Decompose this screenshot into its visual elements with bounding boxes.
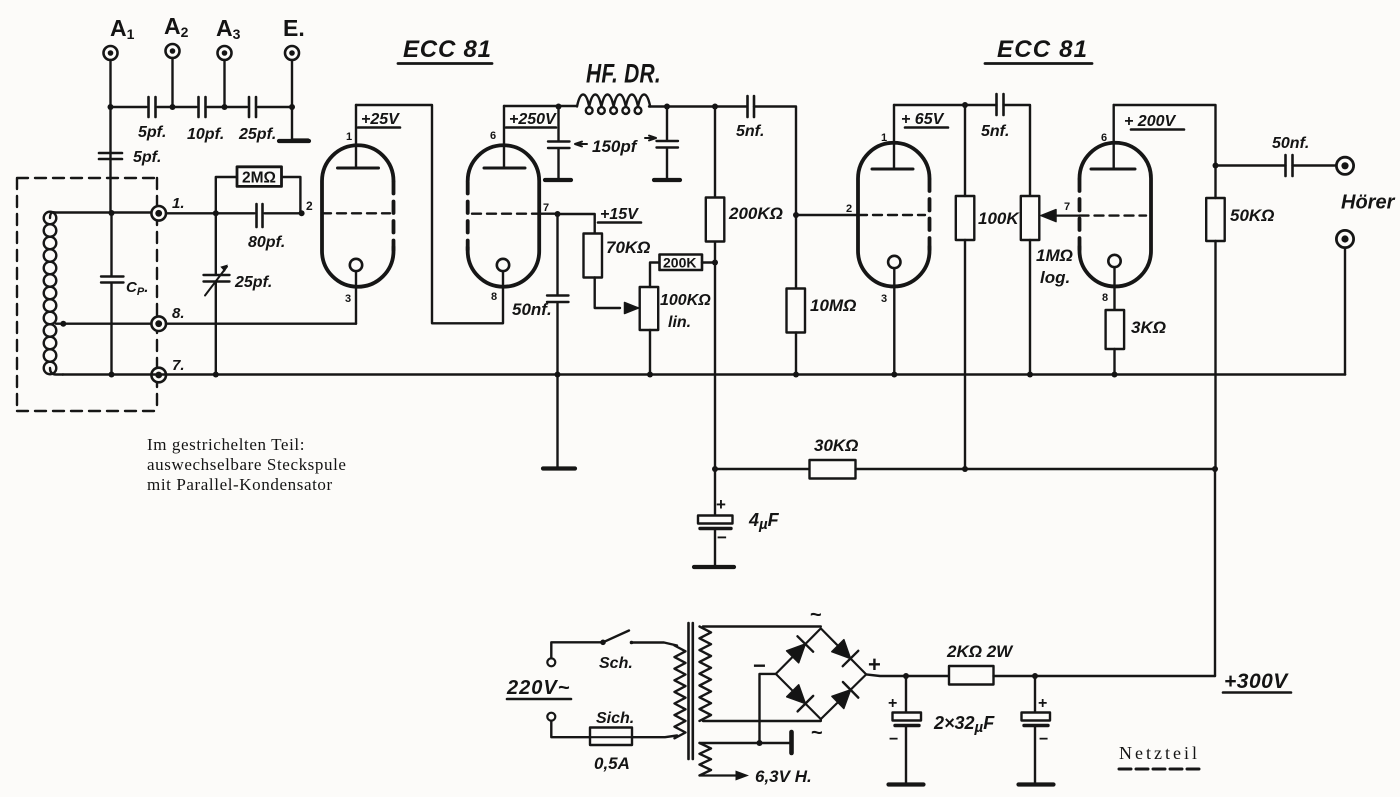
junction A3 line bbox=[222, 104, 228, 110]
tube V4 envelope bbox=[1080, 143, 1152, 287]
svg-text:25pf.: 25pf. bbox=[238, 126, 276, 143]
junction 200K node bbox=[712, 260, 718, 266]
wire A2 down bbox=[171, 58, 173, 107]
SECTION: input coil box bbox=[17, 167, 356, 494]
ground E bbox=[279, 138, 309, 143]
wire bridge plus to filter bbox=[866, 674, 949, 676]
wire coupling chain bbox=[111, 106, 293, 108]
coil L1 bbox=[44, 212, 64, 375]
resistor 2MOhm box bbox=[237, 167, 282, 187]
svg-text:mit Parallel-Kondensator: mit Parallel-Kondensator bbox=[147, 475, 333, 494]
wire grid V3 bbox=[796, 214, 858, 216]
junction 10M bottom bbox=[793, 372, 799, 378]
transformer core bbox=[689, 623, 693, 759]
SECTION: choke and mid parts bbox=[504, 59, 858, 469]
svg-text:Sch.: Sch. bbox=[599, 655, 633, 672]
grid V3 dashed bbox=[858, 214, 925, 216]
pin 6 lead V4 bbox=[1112, 105, 1114, 169]
capacitor 5pf series bbox=[149, 97, 156, 117]
svg-text:3KΩ: 3KΩ bbox=[1131, 318, 1166, 337]
svg-text:3: 3 bbox=[345, 293, 351, 305]
svg-text:7: 7 bbox=[543, 202, 549, 214]
junction E line bbox=[289, 104, 295, 110]
svg-text:150pf: 150pf bbox=[592, 137, 639, 156]
svg-text:+: + bbox=[1038, 695, 1047, 712]
svg-text:7.: 7. bbox=[172, 357, 185, 374]
ground 4uF bbox=[694, 565, 734, 569]
resistor 100K leads bbox=[964, 105, 966, 469]
SECTION: power supply bbox=[506, 604, 1291, 786]
wire node1 to grid wire bbox=[166, 212, 302, 214]
junction 100K bottom supply bbox=[962, 466, 968, 472]
anode V3 bbox=[872, 168, 913, 171]
resistor 50K box bbox=[1206, 198, 1225, 241]
svg-text:6: 6 bbox=[490, 130, 496, 142]
node 1 terminal bbox=[151, 206, 166, 221]
svg-text:HF. DR.: HF. DR. bbox=[586, 59, 661, 89]
wire grid junction to 70K bbox=[558, 214, 595, 234]
svg-text:+ 65V: + 65V bbox=[901, 111, 945, 128]
capacitor 10pf series bbox=[199, 97, 206, 117]
svg-text:1.: 1. bbox=[172, 195, 185, 212]
resistor 2MOhm loop bbox=[216, 177, 301, 213]
junction pot 1M bottom bbox=[1027, 372, 1033, 378]
svg-text:+300V: +300V bbox=[1224, 670, 1289, 693]
junction 50nf ground bbox=[555, 372, 561, 378]
pot 100K bottom lead bbox=[649, 330, 651, 375]
pin 6 lead V2 bbox=[503, 106, 505, 168]
wire mains top to switch bbox=[551, 642, 603, 658]
supply line 30K bbox=[715, 468, 1215, 470]
resistor 50K leads bbox=[1214, 166, 1216, 470]
wiper arrow 1M pot bbox=[1055, 215, 1080, 217]
heater lead arrow bbox=[700, 774, 737, 776]
ground C2 bbox=[1019, 782, 1054, 786]
svg-text:+25V: +25V bbox=[361, 111, 400, 128]
tube V3 envelope bbox=[858, 143, 930, 287]
wire secondary top to bridge bbox=[703, 625, 821, 627]
svg-text:ECC 81: ECC 81 bbox=[997, 36, 1088, 63]
capacitor 4uF electrolytic bbox=[714, 469, 716, 516]
node 2 junction bbox=[299, 210, 305, 216]
grid V1 dashed bbox=[322, 212, 390, 214]
svg-text:ECC 81: ECC 81 bbox=[403, 36, 492, 63]
transformer heater winding bbox=[700, 743, 712, 775]
tube V3 envelope dashed side bbox=[928, 180, 932, 250]
junction A2 line bbox=[170, 104, 176, 110]
terminal Hoerer top bbox=[1336, 157, 1353, 174]
svg-text:50KΩ: 50KΩ bbox=[1230, 206, 1274, 225]
svg-text:auswechselbare Steckspule: auswechselbare Steckspule bbox=[147, 455, 347, 474]
pin 1 lead V1 bbox=[355, 105, 357, 168]
junction 3K bottom bbox=[1112, 372, 1118, 378]
trimmer arrow 25pf bbox=[205, 267, 227, 296]
svg-text:−: − bbox=[1039, 731, 1048, 748]
resistor 100K box bbox=[956, 196, 975, 240]
svg-text:~: ~ bbox=[811, 722, 823, 744]
svg-text:50nf.: 50nf. bbox=[512, 300, 552, 319]
wire 5nf to grid V3 bbox=[754, 107, 796, 289]
svg-text:100K: 100K bbox=[978, 209, 1020, 228]
svg-text:5pf.: 5pf. bbox=[138, 124, 166, 141]
grid V2 junction dot bbox=[555, 211, 561, 217]
fuse Sich box bbox=[590, 728, 632, 746]
feed line 200KOhm vertical bbox=[714, 107, 716, 470]
grid V4 dashed bbox=[1080, 214, 1147, 216]
wire choke to right bbox=[649, 105, 747, 107]
svg-text:2KΩ 2W: 2KΩ 2W bbox=[946, 642, 1014, 661]
svg-text:10pf.: 10pf. bbox=[187, 126, 224, 143]
wire E down bbox=[291, 60, 293, 141]
tube V1 envelope dashed side bbox=[392, 182, 396, 250]
capacitor Cp bbox=[101, 213, 124, 375]
junction 25pf branch bbox=[213, 210, 219, 216]
transformer secondary winding bbox=[700, 627, 712, 721]
junction Cp bottom bbox=[109, 372, 115, 378]
grid V2 dashed bbox=[472, 212, 540, 214]
resistor 2K box bbox=[949, 666, 994, 685]
svg-text:220V~: 220V~ bbox=[506, 677, 570, 699]
svg-text:−: − bbox=[717, 528, 727, 547]
svg-text:~: ~ bbox=[810, 604, 822, 626]
capacitor 50nf output bbox=[1286, 155, 1293, 176]
resistor 3K lead bbox=[1113, 349, 1115, 375]
capacitor 150pf right bbox=[657, 107, 679, 180]
junction cap2 bbox=[1032, 673, 1038, 679]
svg-text:Sich.: Sich. bbox=[596, 710, 634, 727]
svg-text:CP.: CP. bbox=[126, 279, 148, 298]
resistor 70K box bbox=[584, 234, 603, 278]
ground bar psu bbox=[789, 732, 794, 753]
wire 5nf to pot 1M bbox=[1004, 105, 1031, 196]
junction 200k line top bbox=[712, 104, 718, 110]
SECTION: tubes V3 V4 bbox=[846, 36, 1216, 469]
svg-text:2×32µF: 2×32µF bbox=[933, 713, 995, 736]
cathode V4 circle bbox=[1108, 255, 1120, 267]
junction anode V4 output bbox=[1213, 163, 1219, 169]
svg-text:2: 2 bbox=[846, 203, 852, 215]
switch Sch blade bbox=[603, 631, 629, 643]
ground 150pf left bbox=[545, 178, 571, 182]
choke HF.DR. bbox=[577, 95, 650, 114]
svg-text:100KΩ: 100KΩ bbox=[660, 292, 711, 309]
svg-text:Hörer: Hörer bbox=[1341, 192, 1396, 214]
terminal Hoerer bottom bbox=[1336, 230, 1353, 247]
junction 100K top bbox=[962, 102, 968, 108]
ground 150pf right bbox=[654, 178, 680, 182]
cathode V2 circle bbox=[497, 259, 509, 271]
wire 2K to riser bbox=[994, 675, 1216, 677]
dashed enclosure box bbox=[17, 178, 157, 411]
wire to output cap bbox=[1216, 164, 1337, 166]
SECTION: antenna terminals bbox=[99, 13, 309, 214]
diode D3 bottom-left bbox=[787, 685, 814, 712]
cathode V4 lead bbox=[1113, 267, 1115, 310]
capacitor 80pf bbox=[257, 204, 263, 227]
wire V3 anode to 100K node bbox=[894, 104, 997, 106]
ground 50nf bbox=[543, 375, 575, 469]
cathode V3 circle bbox=[888, 256, 900, 268]
junction 25pf bottom bbox=[213, 372, 219, 378]
svg-text:70KΩ: 70KΩ bbox=[606, 238, 650, 257]
capacitor 5nf left series bbox=[748, 96, 755, 117]
svg-text:2: 2 bbox=[306, 199, 313, 213]
svg-text:+: + bbox=[716, 495, 726, 514]
wire Hoerer bottom to rail bbox=[1344, 248, 1346, 375]
wire 70K to pot wiper bbox=[595, 278, 620, 309]
wire coil tap to node 8 to cathode V1 bbox=[63, 323, 356, 325]
cathode V1 lead bbox=[355, 271, 357, 324]
terminal mains top bbox=[547, 658, 555, 666]
svg-text:4µF: 4µF bbox=[748, 510, 780, 533]
wire 200K to node bbox=[702, 261, 715, 263]
terminal A2 bbox=[166, 44, 180, 58]
capacitor 150pf left bbox=[548, 107, 570, 180]
svg-text:+250V: +250V bbox=[509, 111, 557, 128]
svg-text:6,3V H.: 6,3V H. bbox=[755, 767, 812, 786]
svg-text:A2: A2 bbox=[164, 13, 189, 40]
wire fuse to primary bbox=[632, 736, 677, 738]
anode V4 bbox=[1091, 168, 1135, 171]
svg-text:5pf.: 5pf. bbox=[133, 149, 161, 166]
svg-text:5nf.: 5nf. bbox=[736, 123, 764, 140]
svg-text:2MΩ: 2MΩ bbox=[242, 170, 276, 187]
diode D1 top-left bbox=[787, 636, 814, 663]
svg-text:5nf.: 5nf. bbox=[981, 123, 1009, 140]
svg-text:+: + bbox=[868, 652, 881, 677]
svg-text:+: + bbox=[888, 695, 897, 712]
wire heater top to ground bbox=[700, 742, 791, 744]
common rail wire bbox=[63, 373, 1345, 376]
tube V2 envelope dashed side bbox=[466, 182, 470, 250]
resistor 3K box bbox=[1106, 310, 1125, 349]
svg-text:lin.: lin. bbox=[668, 314, 691, 331]
svg-text:200K: 200K bbox=[663, 255, 696, 271]
wire V4 anode to 50K bbox=[1114, 105, 1216, 166]
SECTION: tubes V1 V2 bbox=[322, 36, 558, 324]
svg-text:E.: E. bbox=[283, 15, 305, 41]
anode V2 bbox=[484, 167, 525, 170]
svg-text:7: 7 bbox=[1064, 201, 1070, 213]
svg-text:+ 200V: + 200V bbox=[1124, 113, 1176, 130]
capacitor 25pf variable bbox=[204, 213, 230, 374]
grid V2 lead out bbox=[540, 212, 558, 214]
transformer primary winding bbox=[675, 646, 686, 739]
wire A1 down bbox=[109, 60, 111, 214]
terminal mains bottom bbox=[547, 713, 555, 721]
wire bridge minus to ground bbox=[760, 674, 776, 743]
cathode V3 lead bbox=[893, 268, 895, 374]
junction cathode V3 bbox=[891, 372, 897, 378]
junction 4uF top bbox=[712, 466, 718, 472]
wire secondary bottom to bridge bbox=[703, 719, 821, 721]
svg-text:1MΩ: 1MΩ bbox=[1036, 246, 1073, 265]
riser 300V bbox=[1214, 469, 1216, 676]
pot 100K box bbox=[640, 287, 659, 330]
junction 150pf left bbox=[556, 104, 562, 110]
svg-text:1: 1 bbox=[346, 131, 352, 143]
svg-text:log.: log. bbox=[1040, 268, 1070, 287]
pot 1M box bbox=[1021, 196, 1040, 240]
svg-text:8: 8 bbox=[491, 291, 497, 303]
anode V1 bbox=[338, 167, 379, 170]
junction Cp top bbox=[109, 210, 115, 216]
svg-text:10MΩ: 10MΩ bbox=[810, 296, 856, 315]
resistor 10M lead bbox=[795, 333, 797, 375]
junction heater ground bbox=[757, 740, 763, 746]
arrow right 150pf bbox=[645, 136, 656, 141]
wire coil top to node 1 bbox=[55, 211, 152, 213]
svg-text:−: − bbox=[889, 731, 898, 748]
junction 150pf right bbox=[664, 104, 670, 110]
capacitor 25pf series bbox=[249, 97, 256, 117]
svg-text:25pf.: 25pf. bbox=[234, 274, 272, 291]
terminal A1 bbox=[104, 46, 118, 60]
bridge rectifier diamond bbox=[776, 628, 866, 719]
svg-text:0,5A: 0,5A bbox=[594, 754, 630, 773]
resistor 200KOhm box bbox=[706, 198, 725, 242]
svg-text:30KΩ: 30KΩ bbox=[814, 436, 858, 455]
cathode V1 circle bbox=[350, 259, 362, 271]
node 8 terminal bbox=[151, 316, 166, 331]
junction pot 100K bottom bbox=[647, 372, 653, 378]
wire A3 down bbox=[223, 60, 225, 107]
capacitor C2 32uF bbox=[1034, 676, 1036, 713]
arrow left 150pf bbox=[575, 142, 587, 147]
capacitor 5pf vertical bbox=[99, 153, 122, 159]
wire V2 anode to choke bbox=[504, 105, 577, 107]
capacitor 50nf shunt bbox=[547, 214, 569, 375]
diode D2 top-right bbox=[832, 640, 859, 667]
junction 300V riser bbox=[1212, 466, 1218, 472]
SECTION: rails bbox=[63, 372, 1345, 677]
junction grid V3 bbox=[793, 212, 799, 218]
svg-text:A1: A1 bbox=[110, 15, 135, 42]
svg-text:8.: 8. bbox=[172, 305, 185, 322]
node 7 terminal bbox=[151, 368, 166, 383]
cascode wire V1 anode to V2 cathode bbox=[356, 105, 503, 323]
svg-text:6: 6 bbox=[1101, 132, 1107, 144]
resistor 30K box bbox=[810, 460, 856, 479]
svg-text:200KΩ: 200KΩ bbox=[728, 204, 783, 223]
diode D4 bottom-right bbox=[832, 682, 858, 709]
svg-text:Netzteil: Netzteil bbox=[1119, 743, 1200, 763]
svg-text:Im gestrichelten Teil:: Im gestrichelten Teil: bbox=[147, 435, 305, 454]
svg-text:80pf.: 80pf. bbox=[248, 234, 285, 251]
terminal E bbox=[285, 46, 299, 60]
svg-text:50nf.: 50nf. bbox=[1272, 135, 1309, 152]
SECTION: output bbox=[1206, 135, 1395, 469]
tube V2 envelope bbox=[468, 145, 540, 287]
junction cap1 bbox=[903, 673, 909, 679]
junction A1 line bbox=[108, 104, 114, 110]
svg-text:+15V: +15V bbox=[600, 206, 639, 223]
wire switch to primary bbox=[632, 643, 678, 646]
wiper arrow 100K pot bbox=[625, 303, 639, 314]
resistor 10M box bbox=[787, 289, 806, 333]
pot 1M bottom lead bbox=[1029, 240, 1031, 375]
svg-text:3: 3 bbox=[881, 293, 887, 305]
svg-text:8: 8 bbox=[1102, 292, 1108, 304]
tube V1 envelope bbox=[322, 145, 394, 287]
svg-text:1: 1 bbox=[881, 132, 887, 144]
terminal A3 bbox=[218, 46, 232, 60]
tube V4 envelope dashed side bbox=[1078, 180, 1082, 250]
capacitor 5nf right series bbox=[997, 94, 1004, 115]
svg-text:A3: A3 bbox=[216, 15, 241, 42]
resistor 200K box label bbox=[660, 255, 703, 271]
ground C1 bbox=[889, 782, 924, 786]
capacitor C1 32uF bbox=[905, 676, 907, 713]
wire mains bottom to fuse bbox=[551, 721, 590, 738]
pin 1 lead V3 bbox=[893, 105, 895, 169]
junction coil tap bbox=[60, 321, 66, 327]
pot 100K top lead bbox=[650, 263, 660, 288]
